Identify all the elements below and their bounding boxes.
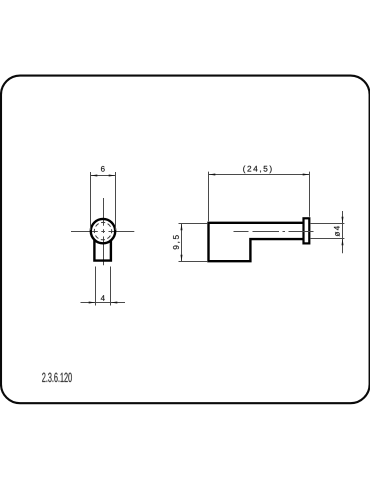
dimension (24,5): dimension line — [209, 174, 310, 176]
dimension ø4: dimension line — [342, 211, 344, 253]
dimension 6: extension lines — [91, 172, 116, 230]
dimension ø4: bottom arrowhead — [342, 239, 344, 246]
front view: vertical centerline — [103, 198, 105, 265]
dimension 9,5: bottom arrowhead — [181, 255, 183, 262]
dimension 6: value label — [101, 166, 105, 172]
dimension 6: right arrowhead — [109, 175, 116, 177]
part number label 2.3.6.120 — [42, 373, 72, 382]
front view: stem outline — [94, 240, 111, 261]
side view: shaft centerline — [234, 231, 314, 233]
dimension (24,5): left arrowhead — [209, 174, 216, 176]
dimension 6: dimension line — [91, 175, 116, 177]
dimension 4: right arrowhead — [111, 302, 118, 304]
dimension ø4: extension lines — [311, 224, 345, 239]
frame border — [1, 76, 370, 404]
dimension 4: dimension line — [81, 302, 126, 304]
dimension 9,5: dimension line — [181, 224, 183, 262]
dimension ø4: value label — [334, 226, 340, 236]
dimension 4: extension lines — [96, 267, 111, 306]
dimension 9,5: extension lines — [179, 224, 208, 262]
dimension ø4: top arrowhead — [342, 217, 344, 224]
side view: end cap outline — [304, 218, 310, 243]
dimension 6: left arrowhead — [91, 175, 98, 177]
dimension 9,5: value label — [173, 235, 180, 249]
dimension 9,5: top arrowhead — [181, 224, 183, 231]
dimension (24,5): right arrowhead — [303, 174, 310, 176]
front view: hidden circle (dashed) — [94, 222, 111, 239]
front view: ball outline circle — [91, 219, 115, 243]
side view: body outline — [209, 223, 304, 261]
dimension 4: left arrowhead — [89, 302, 96, 304]
dimension 4: value label — [101, 295, 105, 301]
dimension (24,5): extension lines — [209, 172, 310, 222]
dimension (24,5): value label — [243, 166, 271, 174]
front view: horizontal centerline — [71, 231, 134, 233]
